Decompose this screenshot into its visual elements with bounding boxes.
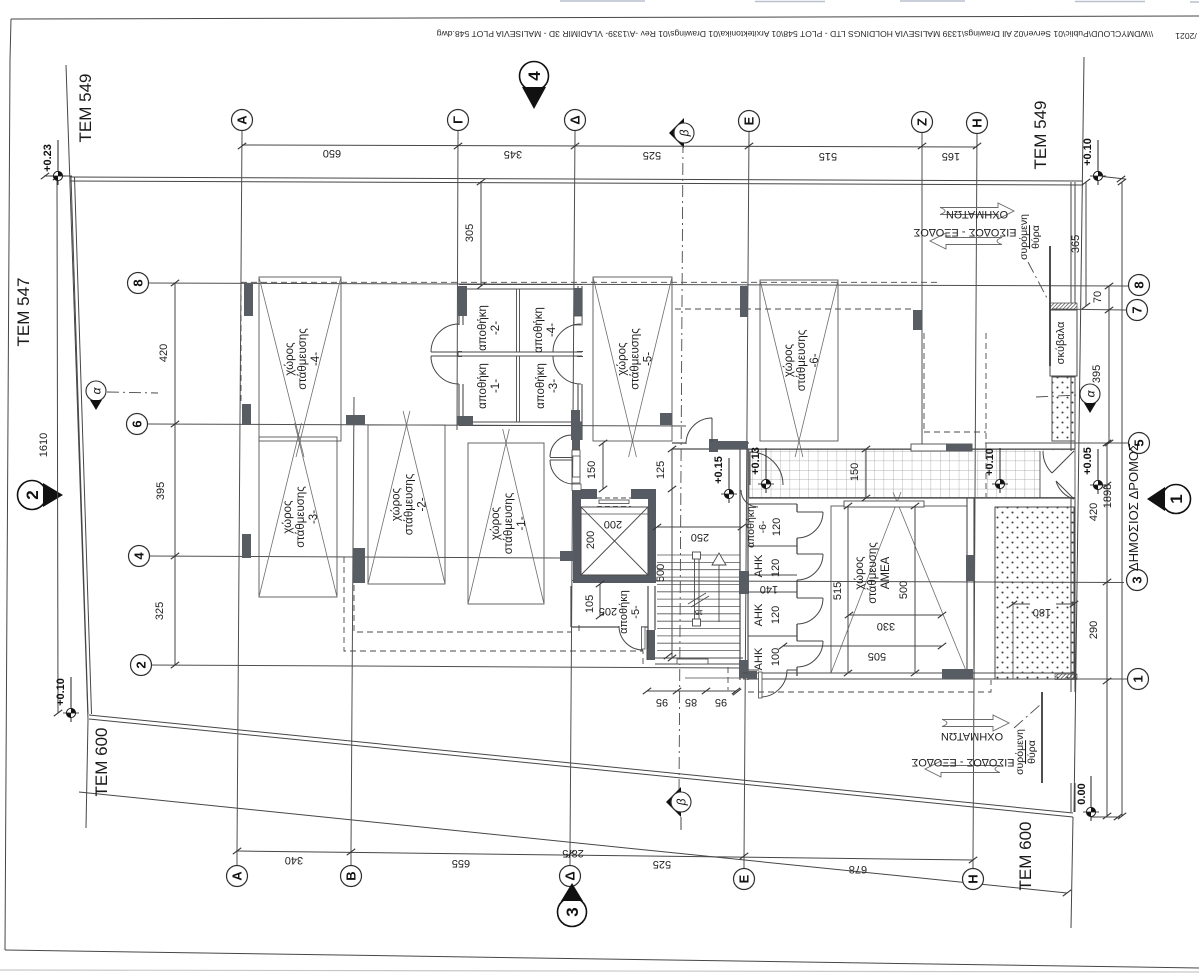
svg-text:525: 525 — [653, 858, 671, 870]
svg-text:7: 7 — [1130, 306, 1145, 313]
svg-text:αποθήκη: αποθήκη — [477, 363, 489, 409]
svg-text:100: 100 — [770, 648, 782, 666]
svg-text:150: 150 — [586, 461, 598, 479]
svg-text:290: 290 — [1088, 621, 1100, 639]
svg-text:0.00: 0.00 — [1076, 783, 1088, 804]
svg-text:395: 395 — [155, 482, 167, 500]
svg-text:στάθμευσης: στάθμευσης — [867, 542, 879, 604]
svg-text:-4-: -4- — [310, 352, 322, 366]
svg-text:χώρος: χώρος — [783, 343, 795, 377]
svg-text:α: α — [1084, 389, 1098, 397]
svg-text:στάθμευσης: στάθμευσης — [503, 492, 515, 554]
svg-text:105: 105 — [584, 595, 596, 613]
svg-text:205: 205 — [599, 605, 617, 617]
svg-text:-3-: -3- — [308, 510, 320, 524]
svg-text:TEM 547: TEM 547 — [14, 278, 33, 347]
svg-text:95: 95 — [715, 696, 727, 708]
svg-text:3: 3 — [1130, 576, 1145, 583]
svg-text:Δ: Δ — [568, 115, 583, 124]
svg-text:A: A — [235, 115, 250, 125]
svg-text:420: 420 — [1088, 503, 1100, 521]
svg-text:395: 395 — [1091, 365, 1103, 383]
svg-text:E: E — [737, 874, 752, 883]
svg-text:H: H — [966, 874, 981, 883]
svg-text:TEM 549: TEM 549 — [76, 74, 95, 143]
svg-text:+0.10: +0.10 — [1082, 138, 1094, 166]
svg-text:ΕΙΣΟΔΟΣ - ΕΞΟΔΟΣ: ΕΙΣΟΔΟΣ - ΕΞΟΔΟΣ — [913, 226, 1016, 238]
svg-text:305: 305 — [464, 224, 476, 242]
svg-text:συρόμενη: συρόμενη — [1018, 214, 1030, 260]
svg-text:2: 2 — [134, 661, 149, 668]
svg-text:στάθμευσης: στάθμευσης — [404, 473, 416, 535]
svg-text:655: 655 — [452, 857, 470, 869]
svg-text:αποθήκη: αποθήκη — [745, 506, 757, 548]
svg-text:125: 125 — [655, 461, 667, 479]
svg-text:χώρος: χώρος — [282, 500, 294, 534]
svg-text:συρόμενη: συρόμενη — [1014, 729, 1026, 775]
svg-text:+0.23: +0.23 — [42, 144, 54, 172]
svg-text:1610: 1610 — [38, 433, 50, 457]
svg-text:420: 420 — [158, 344, 170, 362]
svg-text:+0.15: +0.15 — [713, 456, 725, 484]
svg-text:TEM 600: TEM 600 — [92, 728, 111, 797]
svg-text:85: 85 — [685, 696, 697, 708]
svg-text:4: 4 — [132, 552, 147, 560]
svg-text:340: 340 — [285, 854, 303, 866]
svg-text:E: E — [742, 116, 757, 125]
svg-text:χώρος: χώρος — [617, 342, 629, 376]
svg-text:8: 8 — [131, 279, 146, 286]
svg-text:χώρος: χώρος — [391, 487, 403, 521]
svg-text:ΑΗΚ: ΑΗΚ — [753, 603, 765, 626]
svg-text:β: β — [678, 129, 692, 137]
svg-text:στάθμευσης: στάθμευσης — [796, 329, 808, 391]
svg-text:515: 515 — [832, 582, 844, 600]
svg-text:120: 120 — [771, 518, 783, 536]
svg-text:-4-: -4- — [546, 323, 558, 337]
svg-text:+0.13: +0.13 — [750, 447, 762, 475]
svg-text:1: 1 — [1167, 494, 1186, 503]
svg-text:α: α — [90, 386, 104, 394]
svg-text:120: 120 — [770, 606, 782, 624]
svg-text:1898: 1898 — [1102, 484, 1114, 508]
svg-text:ΟΧΗΜΑΤΩΝ: ΟΧΗΜΑΤΩΝ — [946, 208, 1008, 220]
svg-text:325: 325 — [154, 602, 166, 620]
svg-text:15: 15 — [695, 608, 703, 617]
svg-text:-5-: -5- — [630, 605, 642, 619]
svg-text:-2-: -2- — [417, 497, 429, 511]
svg-text:ΟΧΗΜΑΤΩΝ: ΟΧΗΜΑΤΩΝ — [941, 730, 1003, 742]
svg-text:120: 120 — [770, 559, 782, 577]
svg-text:ΔΗΜΟΣΙΟΣ ΔΡΟΜΟΣ: ΔΗΜΟΣΙΟΣ ΔΡΟΜΟΣ — [1126, 443, 1141, 571]
svg-text:στάθμευσης: στάθμευσης — [295, 486, 307, 548]
svg-text:500: 500 — [898, 581, 910, 599]
svg-text:αποθήκη: αποθήκη — [618, 590, 630, 634]
svg-text:2: 2 — [23, 490, 42, 499]
svg-text:515: 515 — [819, 150, 837, 162]
svg-text:στάθμευσης: στάθμευσης — [630, 328, 642, 390]
svg-text:Z: Z — [915, 118, 930, 126]
svg-text:3: 3 — [563, 907, 582, 916]
svg-text:-6-: -6- — [757, 520, 769, 533]
svg-text:330: 330 — [877, 620, 895, 632]
svg-text:αποθήκη: αποθήκη — [535, 363, 547, 409]
svg-text:Γ: Γ — [451, 116, 466, 124]
svg-text:95: 95 — [656, 696, 668, 708]
svg-text:σκύβαλα: σκύβαλα — [1055, 321, 1067, 364]
svg-text:70: 70 — [1092, 291, 1104, 303]
svg-text:1: 1 — [1131, 675, 1146, 682]
svg-text:-1-: -1- — [516, 516, 528, 530]
svg-text:β: β — [675, 798, 689, 806]
svg-text:-6-: -6- — [809, 353, 821, 367]
svg-text:+0.10: +0.10 — [984, 448, 996, 476]
svg-text:678: 678 — [849, 863, 867, 875]
svg-text:χώρος: χώρος — [490, 506, 502, 540]
svg-text:345: 345 — [504, 148, 522, 160]
svg-text:ΑΗΚ: ΑΗΚ — [753, 647, 765, 670]
svg-text:\\WDMYCLOUD\Public\01 Server\0: \\WDMYCLOUD\Public\01 Server\02 All Draw… — [437, 29, 1154, 39]
svg-text:Δ: Δ — [563, 871, 578, 880]
svg-text:500: 500 — [655, 564, 667, 582]
svg-text:ΑΜΕΑ: ΑΜΕΑ — [880, 556, 892, 589]
svg-text:θύρα: θύρα — [1030, 225, 1042, 249]
svg-text:505: 505 — [868, 650, 886, 662]
svg-text:A: A — [230, 871, 245, 881]
svg-text:-1-: -1- — [490, 379, 502, 393]
svg-text:200: 200 — [585, 531, 597, 549]
svg-text:B: B — [344, 871, 359, 880]
svg-text:χώρος: χώρος — [284, 342, 296, 376]
svg-text:+0.05: +0.05 — [1082, 447, 1094, 475]
svg-text:TEM 600: TEM 600 — [1016, 822, 1035, 891]
svg-text:/2021: /2021 — [1175, 31, 1197, 41]
svg-text:χώρος: χώρος — [854, 556, 866, 590]
svg-text:θύρα: θύρα — [1026, 740, 1038, 764]
svg-text:-3-: -3- — [548, 379, 560, 393]
svg-text:165: 165 — [942, 150, 960, 162]
svg-text:150: 150 — [849, 463, 861, 481]
svg-text:8: 8 — [1132, 281, 1147, 288]
svg-text:αποθήκη: αποθήκη — [533, 307, 545, 353]
svg-text:365: 365 — [1070, 235, 1082, 253]
svg-text:αποθήκη: αποθήκη — [477, 305, 489, 351]
svg-text:180: 180 — [1033, 606, 1051, 618]
svg-text:200: 200 — [604, 518, 622, 530]
svg-text:-2-: -2- — [490, 321, 502, 335]
svg-text:6: 6 — [130, 420, 145, 427]
svg-text:H: H — [970, 118, 985, 127]
svg-text:ΕΙΣΟΔΟΣ - ΕΞΟΔΟΣ: ΕΙΣΟΔΟΣ - ΕΞΟΔΟΣ — [911, 756, 1014, 768]
svg-text:250: 250 — [691, 531, 709, 543]
svg-text:28/5: 28/5 — [562, 847, 583, 859]
svg-text:TEM 549: TEM 549 — [1031, 101, 1050, 170]
svg-text:-5-: -5- — [643, 352, 655, 366]
svg-text:4: 4 — [525, 71, 544, 81]
svg-text:ΑΗΚ: ΑΗΚ — [753, 554, 765, 577]
svg-text:650: 650 — [323, 147, 341, 159]
svg-text:στάθμευσης: στάθμευσης — [297, 328, 309, 390]
svg-text:+0.10: +0.10 — [55, 678, 67, 706]
svg-text:525: 525 — [643, 149, 661, 161]
svg-text:140: 140 — [760, 583, 778, 595]
